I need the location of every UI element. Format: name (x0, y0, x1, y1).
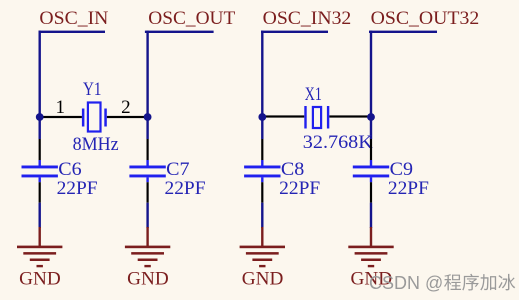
net label OSC_OUT32 (371, 8, 480, 29)
svg-text:GND: GND (127, 269, 169, 290)
svg-text:1: 1 (55, 97, 65, 118)
capacitor C6 (22, 166, 58, 178)
pin number 1 (55, 97, 65, 118)
svg-text:OSC_OUT32: OSC_OUT32 (371, 8, 480, 29)
wire: OSC_IN32 junction down to C8 pin (261, 139, 263, 160)
svg-text:32.768K: 32.768K (303, 132, 373, 153)
junction node OSC_OUT32 (367, 113, 375, 121)
ground symbol GND (C7 net) (125, 227, 170, 267)
wire: C6 pin (black) (39, 182, 41, 203)
junction node OSC_OUT (144, 113, 152, 121)
wire: pin 2 of Y1 (crystal to node OSC_OUT) (107, 116, 148, 118)
ground label GND (127, 269, 169, 290)
wire: OSC_OUT32 junction down to C9 pin (370, 139, 372, 160)
net label OSC_IN32 (263, 8, 352, 29)
pin: C9 top pin stub (370, 160, 372, 166)
wire: pin 1 of Y1 (node OSC_IN to crystal) (40, 116, 82, 118)
watermark chinese characters (444, 274, 515, 291)
ground label GND (242, 269, 284, 290)
wire: OSC_OUT32 horizontal stub (369, 31, 437, 33)
designator C7 (166, 159, 189, 180)
svg-text:22PF: 22PF (279, 178, 320, 199)
wire: OSC_IN32 horizontal stub (261, 31, 328, 33)
svg-text:Y1: Y1 (83, 79, 102, 100)
capacitor C8 (244, 166, 280, 178)
designator Y1 (83, 79, 102, 100)
junction node OSC_IN32 (258, 113, 266, 121)
wire: down to ground (navy) (370, 203, 372, 228)
value 8MHz (73, 134, 119, 155)
value 22PF (C6) (57, 178, 98, 199)
net label OSC_IN (39, 8, 108, 29)
svg-text:OSC_IN32: OSC_IN32 (263, 8, 352, 29)
designator C6 (58, 159, 81, 180)
wire: C8 pin (black) (261, 182, 263, 203)
ground label GND (19, 269, 61, 290)
wire: OSC_IN32 vertical down to junction (261, 31, 263, 139)
svg-text:GND: GND (19, 269, 61, 290)
ground symbol GND (C9 net) (348, 227, 393, 267)
svg-text:22PF: 22PF (57, 178, 98, 199)
pin: C6 top pin stub (39, 160, 41, 166)
designator X1 (305, 84, 322, 105)
ground label GND (351, 269, 393, 290)
wire: OSC_OUT junction down to C7 pin (147, 139, 149, 160)
crystal X1 (304, 106, 329, 129)
pin: C7 bottom pin stub (146, 177, 148, 182)
designator C9 (390, 159, 413, 180)
svg-text:22PF: 22PF (388, 178, 429, 199)
capacitor C9 (353, 166, 389, 178)
pin: C8 bottom pin stub (261, 177, 263, 182)
pin: C9 bottom pin stub (370, 177, 372, 182)
svg-text:OSC_OUT: OSC_OUT (148, 8, 235, 29)
net label OSC_OUT (148, 8, 235, 29)
watermark CSDN @ (369, 273, 443, 293)
svg-text:CSDN @: CSDN @ (369, 273, 443, 293)
ground symbol GND (C6 net) (17, 227, 62, 267)
value 22PF (C9) (388, 178, 429, 199)
wire: pin of X1 (crystal to node OSC_OUT32) (329, 115, 371, 117)
capacitor C7 (129, 166, 165, 178)
wire: OSC_OUT32 vertical down to junction (370, 31, 372, 139)
pin: C8 top pin stub (261, 160, 263, 166)
wire: down to ground (navy) (146, 203, 148, 228)
pin: C7 top pin stub (146, 160, 148, 166)
wire: OSC_IN horizontal stub (39, 31, 106, 33)
svg-text:GND: GND (242, 269, 284, 290)
wire: down to ground (navy) (39, 203, 41, 228)
svg-text:2: 2 (121, 97, 131, 118)
wire: pin of X1 (node OSC_IN32 to crystal) (262, 115, 304, 117)
pin number 2 (121, 97, 131, 118)
pin: C6 bottom pin stub (39, 177, 41, 182)
wire: C9 pin (black) (370, 182, 372, 203)
wire: down to ground (navy) (261, 203, 263, 228)
value 32.768K (303, 132, 373, 153)
svg-text:22PF: 22PF (165, 178, 206, 199)
svg-text:8MHz: 8MHz (73, 134, 119, 155)
crystal Y1 (82, 103, 107, 132)
designator C8 (281, 159, 304, 180)
wire: OSC_IN junction down to C6 pin (39, 139, 41, 160)
junction node OSC_IN (36, 113, 44, 121)
value 22PF (C8) (279, 178, 320, 199)
svg-text:X1: X1 (305, 84, 322, 105)
wire: OSC_OUT horizontal stub (145, 31, 214, 33)
wire: OSC_OUT vertical down to junction (146, 31, 148, 139)
value 22PF (C7) (165, 178, 206, 199)
wire: OSC_IN vertical down to junction (39, 31, 41, 139)
svg-text:OSC_IN: OSC_IN (39, 8, 108, 29)
wire: C7 pin (black) (147, 182, 149, 203)
ground symbol GND (C8 net) (240, 227, 285, 267)
